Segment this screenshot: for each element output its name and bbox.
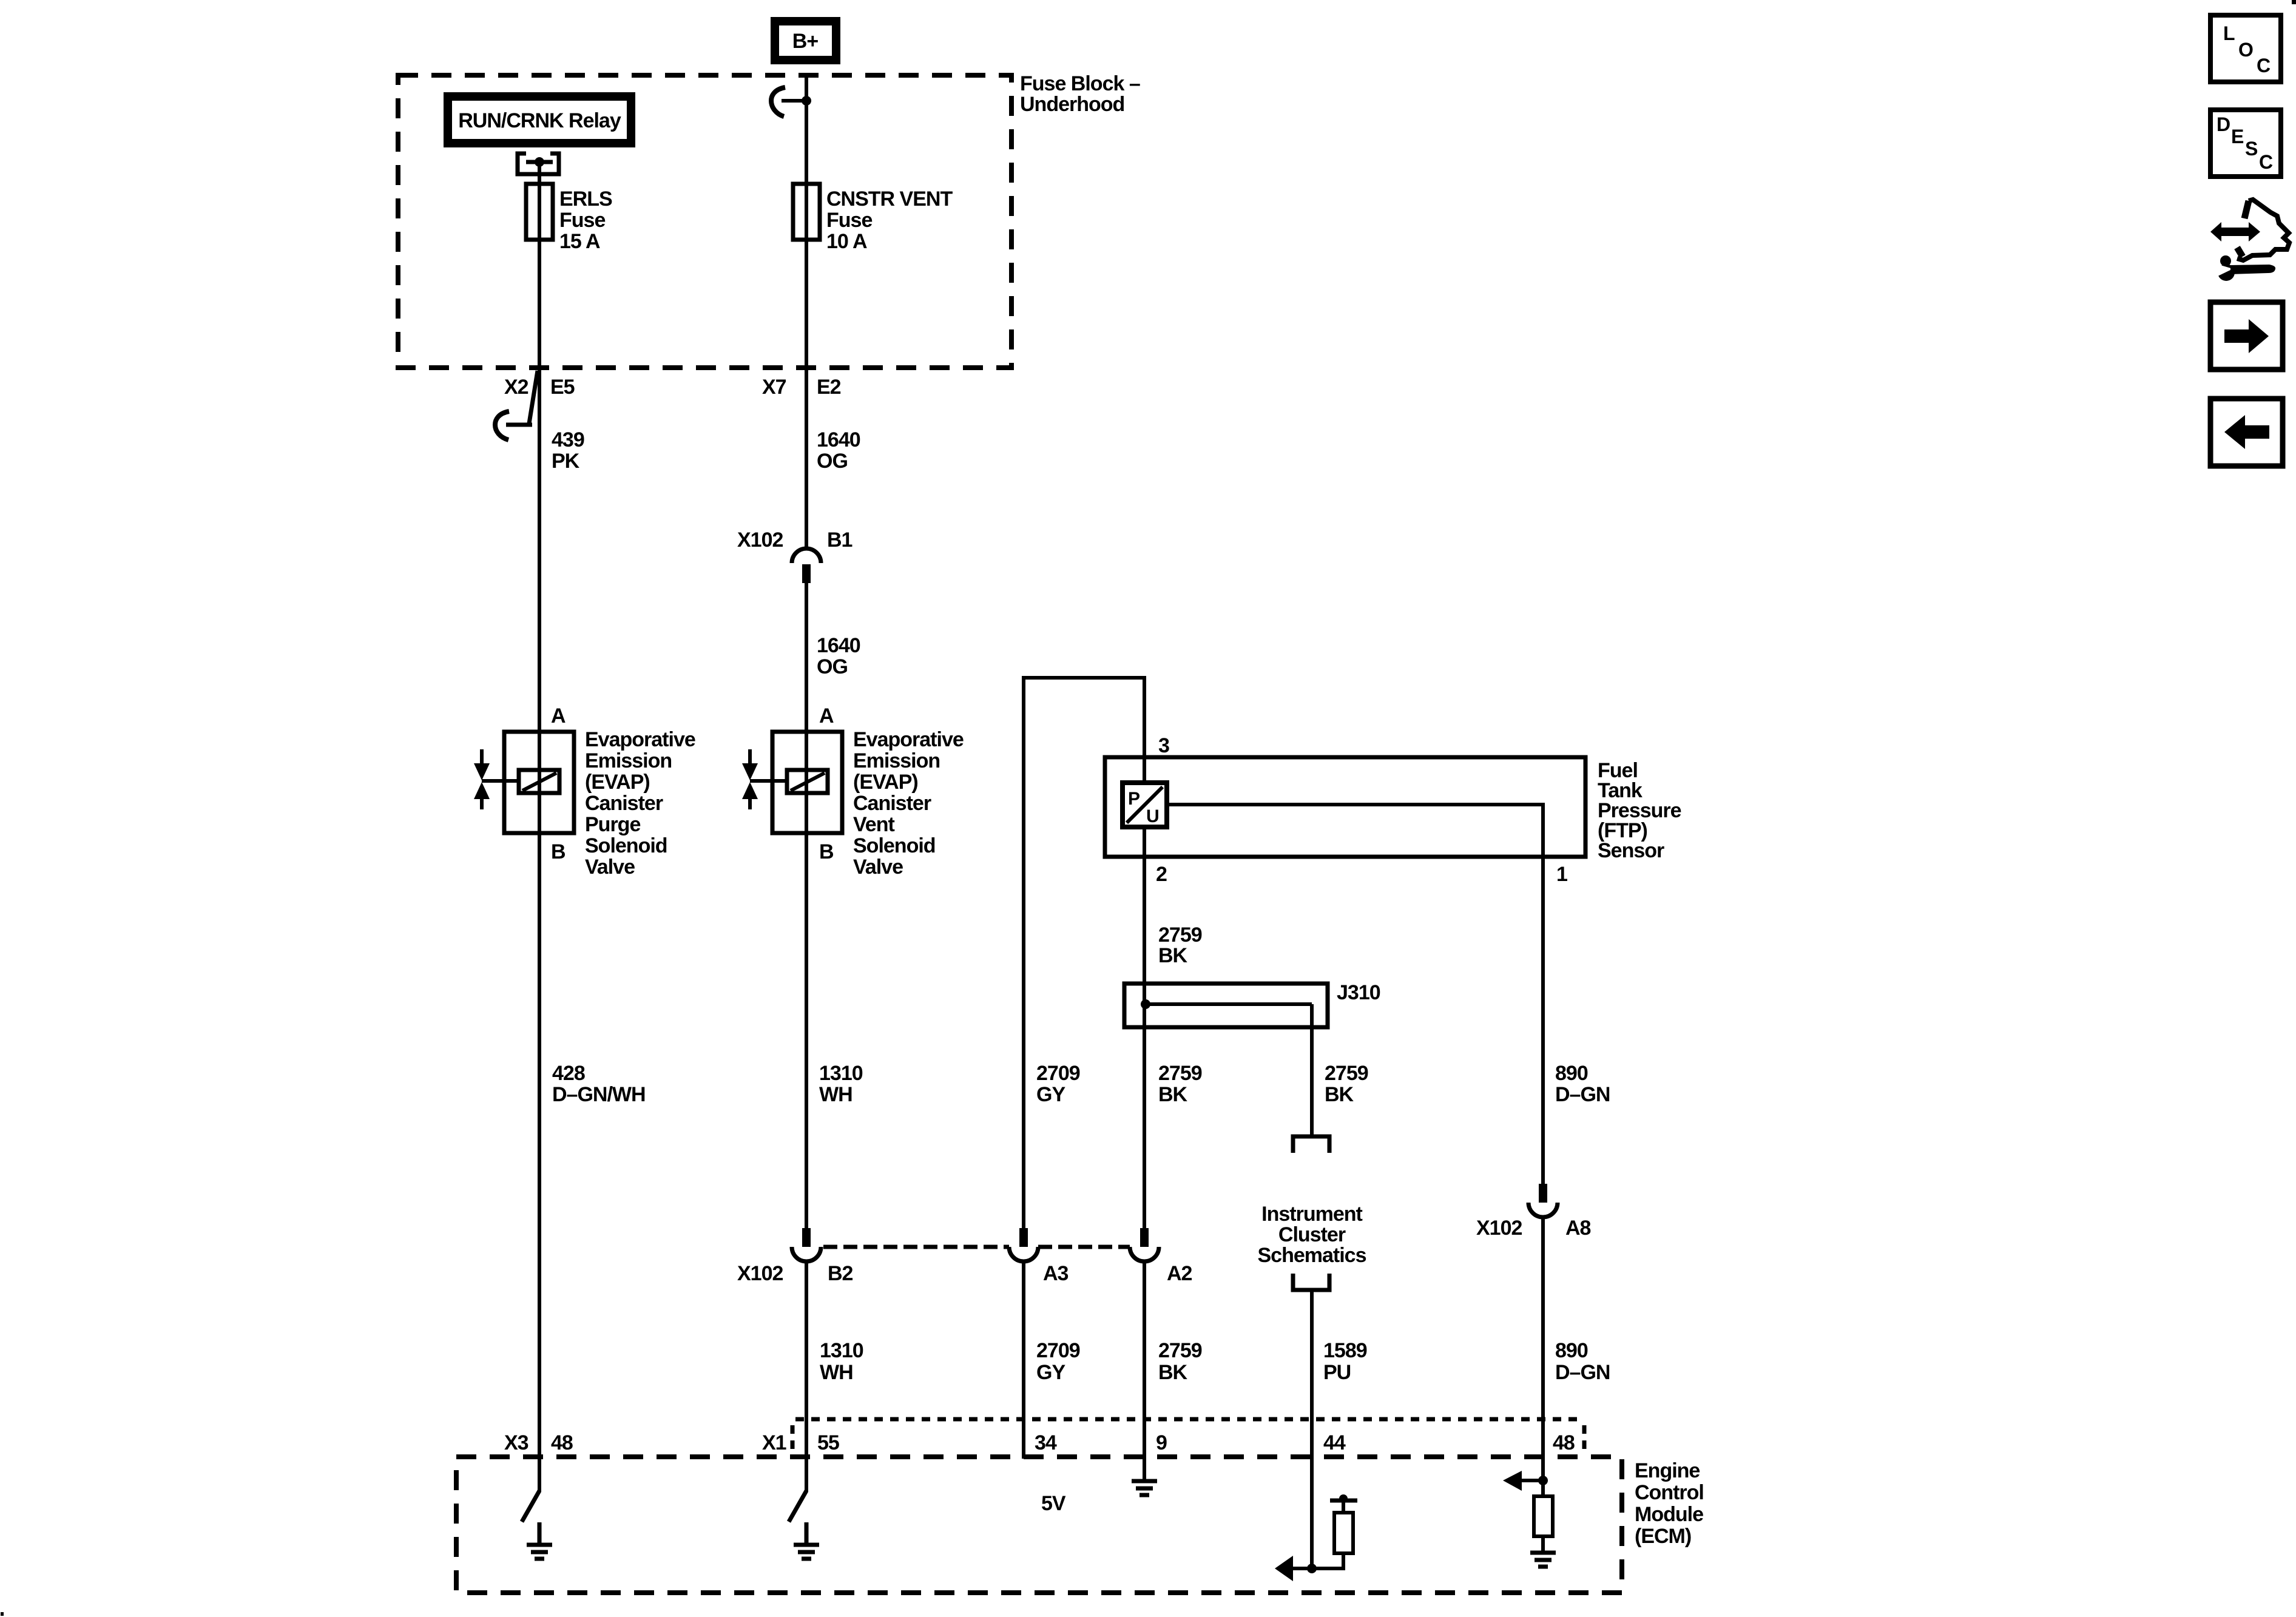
in-line connector X102 pin B2 <box>737 1228 853 1285</box>
EVAP purge valve symbol <box>474 749 490 809</box>
svg-text:1589: 1589 <box>1323 1339 1367 1362</box>
svg-text:BK: BK <box>1158 1083 1188 1106</box>
svg-text:Valve: Valve <box>585 856 635 879</box>
svg-text:2709: 2709 <box>1036 1062 1080 1085</box>
off-page connector bracket from instrument cluster <box>1293 1274 1329 1290</box>
ECM internal pull-up resistor R1 at pin 44 <box>1330 1494 1357 1553</box>
svg-text:(EVAP): (EVAP) <box>585 771 650 794</box>
svg-text:Underhood: Underhood <box>1020 93 1124 116</box>
svg-text:WH: WH <box>820 1361 853 1384</box>
connector X2/E5 terminal lead and curl <box>495 371 538 440</box>
svg-text:X102: X102 <box>1476 1217 1522 1240</box>
relay K1 output contact symbol <box>518 154 559 174</box>
svg-text:C: C <box>2259 151 2273 173</box>
svg-text:Canister: Canister <box>853 792 931 815</box>
svg-text:(ECM): (ECM) <box>1635 1525 1691 1548</box>
fuel tank pressure sensor label <box>1598 759 1681 862</box>
svg-text:48: 48 <box>551 1431 573 1454</box>
wire 2709 GY label lower <box>1036 1339 1080 1384</box>
connector X102 dashed boundary line <box>823 1245 1130 1249</box>
wire 1589 PU from cluster to ECM pin 44 <box>1310 1290 1314 1568</box>
wire 1310 WH label lower <box>820 1339 863 1384</box>
svg-text:X1: X1 <box>762 1431 786 1454</box>
EVAP vent valve symbol <box>742 749 758 809</box>
wire 2759 BK from A2 to ECM pin 9 ground <box>1143 1263 1146 1483</box>
harness wrench navigation icon <box>2210 200 2289 281</box>
in-line connector X102 pin A2 <box>1130 1228 1192 1285</box>
junction node on B+ feed <box>802 96 811 106</box>
svg-text:2759: 2759 <box>1325 1062 1368 1085</box>
svg-text:Schematics: Schematics <box>1258 1244 1366 1267</box>
svg-text:B2: B2 <box>828 1262 853 1285</box>
wire 1640 OG label upper <box>817 428 860 473</box>
engine control module ECM dashed box <box>456 1457 1622 1593</box>
LOC navigation icon box <box>2210 15 2281 82</box>
back navigation arrow icon box <box>2210 399 2283 466</box>
svg-text:890: 890 <box>1555 1339 1588 1362</box>
svg-text:Sensor: Sensor <box>1598 839 1664 862</box>
svg-text:A2: A2 <box>1167 1262 1192 1285</box>
EVAP canister purge solenoid valve L1 box <box>504 732 574 833</box>
wire 890 D-GN from A8 to ECM pin 48 <box>1541 1218 1545 1480</box>
svg-text:BK: BK <box>1158 944 1188 967</box>
EVAP canister vent solenoid valve L2 box <box>772 732 842 833</box>
svg-text:55: 55 <box>817 1431 839 1454</box>
ECM internal pull-down resistor R2 at pin 48 <box>1534 1480 1553 1553</box>
svg-text:B1: B1 <box>827 528 853 552</box>
EVAP canister purge solenoid valve label <box>585 728 695 879</box>
wire 2759 BK label at pin 2 <box>1158 923 1202 967</box>
svg-text:2759: 2759 <box>1158 923 1202 947</box>
connector X2 terminal E5 labels <box>504 376 575 399</box>
EVAP canister vent solenoid valve label <box>853 728 964 879</box>
forward navigation arrow icon box <box>2210 302 2283 370</box>
svg-text:2: 2 <box>1156 863 1167 886</box>
wire from relay through ERLS fuse to E5 <box>538 162 541 1492</box>
wire 890 D-GN mid label <box>1555 1062 1610 1106</box>
svg-text:48: 48 <box>1553 1431 1575 1454</box>
in-line connector X102 pin B1 <box>737 528 853 583</box>
svg-text:RUN/CRNK Relay: RUN/CRNK Relay <box>458 109 621 132</box>
svg-text:WH: WH <box>819 1083 853 1106</box>
svg-text:1310: 1310 <box>819 1062 863 1085</box>
connector X7 terminal E2 labels <box>762 376 841 399</box>
DESC navigation icon box <box>2210 110 2281 177</box>
svg-text:1640: 1640 <box>817 428 860 451</box>
svg-text:E: E <box>2231 126 2244 147</box>
svg-text:D–GN: D–GN <box>1555 1361 1610 1384</box>
EVAP vent solenoid coil <box>750 770 828 793</box>
svg-text:34: 34 <box>1035 1431 1057 1454</box>
fuse block underhood label <box>1020 72 1140 116</box>
off-page connector bracket to instrument cluster <box>1293 1136 1329 1153</box>
page corner mark top right <box>2292 0 2296 4</box>
in-line connector X102 pin A3 <box>1009 1228 1069 1285</box>
ECM internal node at pin 48 <box>1503 1471 1548 1491</box>
svg-text:44: 44 <box>1323 1431 1346 1454</box>
wire 1640 OG label lower <box>817 634 860 678</box>
svg-text:Valve: Valve <box>853 856 903 879</box>
EVAP purge solenoid coil <box>482 770 559 793</box>
svg-text:PU: PU <box>1323 1361 1351 1384</box>
wire 2709 GY riser to FTP pin 3 <box>1022 678 1146 1228</box>
svg-text:D: D <box>2217 113 2230 135</box>
wire B+ feed down to CNSTR VENT fuse <box>805 75 808 548</box>
ECM internal ground at pin 9 <box>1132 1481 1157 1495</box>
svg-text:X2: X2 <box>504 376 528 399</box>
svg-text:BK: BK <box>1158 1361 1188 1384</box>
svg-text:B: B <box>551 840 566 863</box>
svg-text:Fuse: Fuse <box>826 209 872 232</box>
FTP sensor P/U transducer element U1 <box>1123 783 1167 827</box>
svg-text:J310: J310 <box>1337 981 1380 1004</box>
svg-text:PK: PK <box>552 450 580 473</box>
svg-text:A8: A8 <box>1565 1217 1591 1240</box>
svg-text:U: U <box>1146 806 1160 826</box>
wire 2759 BK mid label right <box>1325 1062 1368 1106</box>
svg-text:S: S <box>2245 138 2258 160</box>
svg-text:X102: X102 <box>737 1262 783 1285</box>
svg-text:Solenoid: Solenoid <box>853 834 936 857</box>
svg-text:Control: Control <box>1635 1481 1704 1504</box>
svg-text:Emission: Emission <box>585 749 672 772</box>
svg-text:O: O <box>2238 39 2253 61</box>
connector X1 dotted boundary <box>792 1419 1584 1454</box>
svg-text:10 A: 10 A <box>826 230 867 253</box>
svg-text:(EVAP): (EVAP) <box>853 771 918 794</box>
wire 890 D-GN label lower <box>1555 1339 1610 1384</box>
ECM internal ground at pin 48 left <box>527 1522 552 1559</box>
svg-text:GY: GY <box>1036 1083 1065 1106</box>
svg-text:890: 890 <box>1555 1062 1588 1085</box>
svg-text:Vent: Vent <box>853 813 894 836</box>
svg-text:1640: 1640 <box>817 634 860 657</box>
svg-text:E2: E2 <box>817 376 841 399</box>
svg-text:1: 1 <box>1556 863 1567 886</box>
svg-text:15 A: 15 A <box>559 230 600 253</box>
svg-text:L: L <box>2223 22 2235 44</box>
svg-text:P: P <box>1128 789 1140 809</box>
ECM internal ground at pin 55 <box>794 1522 819 1559</box>
page mark bottom left <box>1 1612 4 1616</box>
svg-text:2759: 2759 <box>1158 1339 1202 1362</box>
wire 1310 WH label upper <box>819 1062 863 1106</box>
svg-text:D–GN/WH: D–GN/WH <box>552 1083 646 1106</box>
svg-text:Cluster: Cluster <box>1278 1223 1346 1246</box>
svg-text:439: 439 <box>552 428 584 451</box>
fuel tank pressure FTP sensor B1 box <box>1105 757 1585 857</box>
in-line connector X102 pin A8 <box>1476 1184 1591 1240</box>
ECM internal switch at pin 55 <box>789 1491 806 1522</box>
svg-text:9: 9 <box>1156 1431 1167 1454</box>
ECM internal ground at pin 48 <box>1530 1553 1556 1567</box>
svg-text:OG: OG <box>817 450 848 473</box>
fuse ERLS 15 A <box>526 184 612 253</box>
ECM internal switch at pin 48 left <box>522 1491 539 1522</box>
FTP sensor signal line to pin 1 <box>1167 805 1545 1184</box>
wire 2709 GY mid label <box>1036 1062 1080 1106</box>
instrument cluster schematics reference label <box>1258 1203 1366 1267</box>
svg-text:Solenoid: Solenoid <box>585 834 667 857</box>
svg-text:Evaporative: Evaporative <box>853 728 964 751</box>
svg-text:OG: OG <box>817 655 848 678</box>
svg-text:Fuse Block –: Fuse Block – <box>1020 72 1140 95</box>
wire 2759 BK label lower <box>1158 1339 1202 1384</box>
svg-text:GY: GY <box>1036 1361 1065 1384</box>
svg-text:Canister: Canister <box>585 792 663 815</box>
svg-text:A3: A3 <box>1043 1262 1069 1285</box>
wire FTP pin 2 down to splice J310 <box>1143 827 1146 1228</box>
svg-text:Module: Module <box>1635 1503 1703 1526</box>
svg-text:BK: BK <box>1325 1083 1354 1106</box>
svg-text:E5: E5 <box>550 376 575 399</box>
svg-text:Purge: Purge <box>585 813 640 836</box>
wire 2759 BK mid label left <box>1158 1062 1202 1106</box>
svg-text:A: A <box>551 704 566 727</box>
engine control module label <box>1635 1459 1704 1548</box>
fuse CNSTR VENT 10 A <box>793 184 953 253</box>
svg-text:C: C <box>2257 55 2271 76</box>
svg-text:Engine: Engine <box>1635 1459 1700 1482</box>
wire 428 D-GN/WH label <box>552 1062 646 1106</box>
svg-text:Fuse: Fuse <box>559 209 605 232</box>
svg-text:ERLS: ERLS <box>559 187 612 211</box>
svg-text:428: 428 <box>552 1062 585 1085</box>
svg-text:Emission: Emission <box>853 749 940 772</box>
wire from B1 to EVAP vent valve and B2 <box>805 583 808 1228</box>
svg-text:X3: X3 <box>504 1431 528 1454</box>
ECM internal node at pin 44 <box>1275 1553 1345 1581</box>
svg-text:2709: 2709 <box>1036 1339 1080 1362</box>
wire 1589 PU label lower <box>1323 1339 1367 1384</box>
svg-text:A: A <box>819 704 834 727</box>
B+ feed terminal stub and curl <box>771 87 806 116</box>
svg-text:CNSTR VENT: CNSTR VENT <box>826 187 953 211</box>
svg-text:2759: 2759 <box>1158 1062 1202 1085</box>
wire 2709 GY from A3 to ECM pin 34 <box>1022 1263 1025 1459</box>
svg-text:D–GN: D–GN <box>1555 1083 1610 1106</box>
splice J310 <box>1124 981 1380 1136</box>
svg-text:X102: X102 <box>737 528 783 552</box>
RUN/CRNK relay K1 box <box>448 96 631 143</box>
svg-text:B+: B+ <box>792 30 819 53</box>
B+ battery terminal box <box>775 21 836 60</box>
svg-text:Instrument: Instrument <box>1261 1203 1362 1226</box>
svg-text:X7: X7 <box>762 376 786 399</box>
fuse block underhood dashed box <box>398 75 1011 368</box>
wire 1310 WH from B2 to ECM pin 55 <box>805 1263 808 1492</box>
svg-text:3: 3 <box>1158 734 1169 757</box>
wire 439 PK label <box>552 428 584 473</box>
svg-text:1310: 1310 <box>820 1339 863 1362</box>
svg-text:Evaporative: Evaporative <box>585 728 695 751</box>
svg-text:B: B <box>819 840 834 863</box>
svg-text:5V: 5V <box>1041 1492 1066 1515</box>
